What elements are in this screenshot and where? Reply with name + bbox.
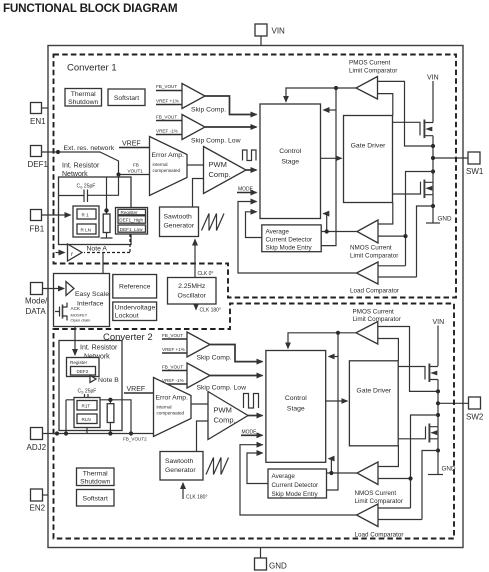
svg-text:DATA: DATA	[26, 307, 47, 316]
svg-text:FB_VOUT: FB_VOUT	[162, 333, 183, 338]
svg-text:CLK 0°: CLK 0°	[198, 271, 214, 277]
svg-text:VREF +1%: VREF +1%	[156, 99, 179, 104]
svg-text:Note B: Note B	[98, 377, 119, 384]
svg-text:CS 25pF: CS 25pF	[78, 389, 97, 395]
svg-text:Stage: Stage	[287, 406, 305, 413]
svg-text:Skip Mode Entry: Skip Mode Entry	[266, 245, 313, 252]
svg-text:Thermal: Thermal	[71, 91, 96, 98]
svg-text:Error Amp.: Error Amp.	[152, 152, 185, 159]
svg-text:VIN: VIN	[427, 75, 439, 82]
svg-text:DEF1_Low: DEF1_Low	[120, 227, 143, 232]
svg-text:Skip Mode Entry: Skip Mode Entry	[272, 491, 319, 498]
svg-text:VREF -1%: VREF -1%	[156, 129, 178, 134]
svg-text:Current Detector: Current Detector	[272, 482, 319, 489]
svg-text:Reference: Reference	[119, 284, 151, 291]
svg-text:internal: internal	[157, 405, 172, 410]
svg-text:Register: Register	[121, 210, 139, 215]
svg-text:Skip Comp. Low: Skip Comp. Low	[197, 385, 247, 392]
svg-text:VIN: VIN	[433, 319, 445, 326]
svg-text:Ext. res. network: Ext. res. network	[64, 145, 115, 152]
svg-text:MODE: MODE	[238, 187, 254, 193]
svg-text:CLK 180°: CLK 180°	[186, 495, 207, 501]
svg-text:FB_VOUT: FB_VOUT	[156, 84, 177, 89]
svg-text:Thermal: Thermal	[83, 471, 108, 478]
svg-text:VREF -1%: VREF -1%	[162, 378, 184, 383]
svg-text:Shutdown: Shutdown	[80, 479, 110, 486]
svg-text:Current Detector: Current Detector	[266, 237, 313, 244]
svg-text:PWM: PWM	[214, 406, 232, 415]
svg-text:Mode/: Mode/	[25, 297, 48, 306]
svg-text:Int. Resistor: Int. Resistor	[80, 345, 118, 352]
svg-text:EN1: EN1	[30, 117, 46, 126]
svg-text:R1T: R1T	[82, 404, 91, 409]
svg-text:Note A: Note A	[87, 246, 108, 253]
svg-text:PWM: PWM	[209, 160, 227, 169]
svg-text:GND: GND	[269, 562, 287, 571]
svg-text:Gate Driver: Gate Driver	[351, 143, 386, 150]
svg-text:CLK 180°: CLK 180°	[200, 308, 221, 314]
svg-text:Comp.: Comp.	[209, 170, 231, 179]
svg-text:Stage: Stage	[281, 159, 299, 166]
svg-text:R LN: R LN	[81, 228, 91, 233]
svg-text:Load Comparator: Load Comparator	[350, 288, 399, 295]
svg-text:DEF1_High: DEF1_High	[119, 218, 143, 223]
svg-text:Sawtooth: Sawtooth	[164, 214, 193, 221]
svg-text:NMOS Current: NMOS Current	[350, 245, 392, 252]
svg-text:Converter 1: Converter 1	[67, 63, 117, 74]
svg-text:Register: Register	[70, 360, 88, 365]
svg-text:Easy Scale: Easy Scale	[75, 291, 109, 298]
svg-text:compensated: compensated	[153, 168, 181, 173]
svg-text:Average: Average	[266, 229, 290, 236]
svg-text:NMOS Current: NMOS Current	[355, 490, 397, 497]
svg-text:GND: GND	[438, 216, 452, 223]
svg-text:Skip Comp.: Skip Comp.	[191, 107, 226, 114]
svg-text:Gate Driver: Gate Driver	[356, 388, 391, 395]
svg-text:2.25MHz: 2.25MHz	[178, 283, 206, 290]
svg-text:Open drain: Open drain	[71, 318, 91, 323]
svg-text:Softstart: Softstart	[83, 496, 108, 503]
svg-text:Generator: Generator	[164, 223, 195, 230]
svg-text:R 1: R 1	[82, 213, 90, 218]
svg-text:RLN: RLN	[82, 417, 91, 422]
svg-text:FB_VOUT: FB_VOUT	[162, 365, 183, 370]
svg-text:compensated: compensated	[157, 411, 185, 416]
svg-text:PMOS Current: PMOS Current	[349, 60, 391, 67]
svg-text:Comp.: Comp.	[214, 416, 236, 425]
svg-text:internal: internal	[153, 162, 168, 167]
svg-text:VREF +1%: VREF +1%	[162, 347, 185, 352]
svg-text:Limit Comparator: Limit Comparator	[350, 253, 398, 260]
svg-text:PMOS Current: PMOS Current	[353, 309, 395, 316]
svg-text:VREF: VREF	[127, 386, 146, 393]
svg-text:DEF1: DEF1	[28, 160, 49, 169]
svg-text:Int. Resistor: Int. Resistor	[62, 163, 100, 170]
svg-text:Lockout: Lockout	[115, 313, 139, 320]
svg-text:Limit Comparator: Limit Comparator	[349, 68, 397, 75]
svg-text:Control: Control	[285, 395, 307, 402]
svg-text:GND: GND	[442, 466, 456, 473]
svg-text:VOUT1: VOUT1	[128, 169, 144, 174]
svg-text:EN2: EN2	[30, 504, 46, 513]
svg-text:Oscillator: Oscillator	[178, 293, 207, 300]
svg-text:Shutdown: Shutdown	[68, 99, 98, 106]
svg-text:Sawtooth: Sawtooth	[165, 458, 194, 465]
svg-text:CS 25pF: CS 25pF	[77, 184, 96, 190]
svg-text:Load Comparator: Load Comparator	[355, 531, 404, 538]
svg-text:DEF2: DEF2	[77, 369, 89, 374]
svg-text:Average: Average	[272, 473, 296, 480]
svg-text:Skip Comp. Low: Skip Comp. Low	[191, 138, 241, 145]
svg-text:VIN: VIN	[272, 27, 286, 36]
svg-text:VREF: VREF	[122, 141, 141, 148]
svg-text:Generator: Generator	[165, 467, 196, 474]
svg-text:Skip Comp.: Skip Comp.	[197, 355, 232, 362]
svg-text:SW2: SW2	[466, 413, 484, 422]
svg-text:FUNCTIONAL BLOCK DIAGRAM: FUNCTIONAL BLOCK DIAGRAM	[3, 2, 177, 15]
svg-text:Interface: Interface	[77, 301, 104, 308]
svg-text:FB_VOUT: FB_VOUT	[156, 115, 177, 120]
svg-text:FB: FB	[133, 163, 139, 168]
svg-text:Softstart: Softstart	[114, 95, 139, 102]
svg-text:Control: Control	[279, 148, 301, 155]
svg-text:Undervoltage: Undervoltage	[115, 305, 156, 312]
svg-text:FB1: FB1	[30, 225, 45, 234]
svg-text:Error Amp.: Error Amp.	[156, 395, 189, 402]
svg-text:SW1: SW1	[466, 167, 484, 176]
svg-text:ADJ2: ADJ2	[27, 443, 47, 452]
svg-text:FB_VOUT2: FB_VOUT2	[123, 437, 147, 442]
svg-text:ACK: ACK	[71, 306, 81, 311]
